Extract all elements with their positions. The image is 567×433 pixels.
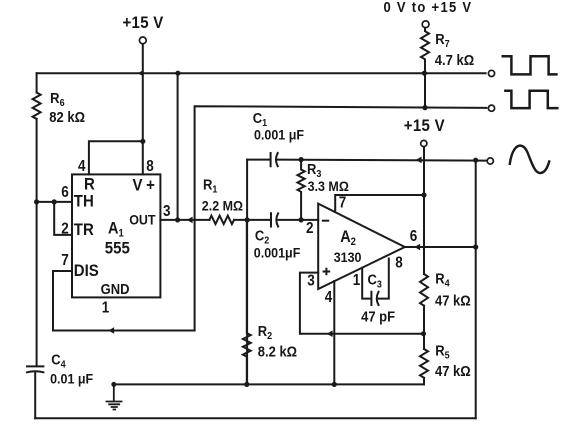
node dot ground rail / pin4 [332,382,337,387]
svg-text:47 pF: 47 pF [361,308,395,325]
wire right vertical x=475.7 (output to sine rail) [475,160,477,418]
capacitor C4 [27,366,43,372]
svg-text:OUT: OUT [129,212,155,228]
terminal +15V right [421,140,427,146]
svg-text:3130: 3130 [334,249,362,265]
node dot +15V / pin4 branch [140,139,145,144]
svg-text:4: 4 [325,289,333,306]
waveform square 2 [505,91,557,108]
svg-text:C2: C2 [255,227,269,247]
node dot +15V / pin7 [421,192,426,197]
wire x=194.6 vertical to 2nd output rail [195,106,487,330]
terminal square output 1 [488,70,494,76]
crossing mark pin1 over DIS wire [108,327,114,334]
svg-text:7: 7 [339,195,347,212]
wire +15V drop x=142.8 to 555 pin8 [142,44,144,175]
op-amp U A2 triangle [318,204,405,289]
wire pin4 branch y=141.3 [89,141,143,174]
node dot C1 / R3 top [299,157,304,162]
svg-text:3: 3 [163,203,171,220]
resistor R6 [33,93,41,119]
svg-text:1: 1 [102,300,110,317]
svg-text:GND: GND [101,280,130,297]
svg-text:TR: TR [74,221,94,239]
svg-text:R1: R1 [203,176,218,196]
op-amp pin7 stub to +15V [335,195,424,212]
svg-text:R6: R6 [50,89,64,109]
terminal sine output [487,158,493,164]
svg-text:DIS: DIS [74,262,99,280]
crossing mark x194.6 over OUT [187,217,193,224]
capacitor C3 [371,292,378,305]
wire TH pin6 y=202 [37,201,72,203]
op-amp pin8 stub [379,259,389,299]
svg-text:0.01 μF: 0.01 μF [50,371,93,387]
wire left rail x=36.6 (top corner to C4) [36,73,38,92]
svg-text:47 kΩ: 47 kΩ [435,362,471,379]
node dot rail2 / R7 [422,105,427,110]
svg-text:A1: A1 [108,220,124,240]
555 box A1 [72,174,160,297]
wire x=177.6 link OUT to top rail [177,73,179,220]
svg-text:4: 4 [78,158,86,175]
svg-text:R4: R4 [435,270,450,290]
svg-text:C4: C4 [51,351,66,371]
terminal +15V top-left [139,37,146,44]
svg-text:+15 V: +15 V [123,14,164,32]
op-amp minus sign [322,220,329,222]
wire C1 branch y=159.6 [247,159,270,161]
op-amp pin1 stub [362,268,371,299]
terminal square output 2 [488,105,494,111]
wire R1 to C2 node [234,219,271,221]
svg-text:R7: R7 [435,30,449,50]
waveform square 1 [503,56,557,74]
svg-text:V+: V+ [133,177,159,195]
svg-text:4.7 kΩ: 4.7 kΩ [435,51,474,68]
svg-text:8: 8 [395,255,403,272]
waveform sine [510,146,549,173]
op-amp pin3 route to divider [300,273,424,334]
resistor R4 [420,274,428,306]
wire x=247.1 vertical C1/C2/R2 [246,160,248,385]
wire left rail below R6 [36,119,38,366]
svg-text:47 kΩ: 47 kΩ [435,292,471,309]
node dot sine rail / right vertical [473,158,478,163]
svg-text:2: 2 [61,221,69,238]
wire R5 to ground rail [423,378,425,385]
svg-text:3.3 MΩ: 3.3 MΩ [308,178,350,194]
svg-text:6: 6 [410,228,418,245]
node dot TH / left rail [34,199,39,204]
wire TR pin2 branch [54,202,72,235]
svg-text:R: R [84,176,95,194]
svg-text:0.001 μF: 0.001 μF [254,127,304,143]
wire OUT pin3 y=220 [160,219,209,221]
svg-text:A2: A2 [340,228,356,248]
ground symbol [107,384,122,409]
crossing mark +15V over top rail [138,70,144,77]
svg-text:6: 6 [61,184,69,201]
wire R4 to R5 [423,306,425,349]
resistor R7 [421,28,429,108]
wire bottom rail [35,417,476,419]
svg-text:555: 555 [105,240,130,258]
node dot ground rail / R2 [244,382,249,387]
op-amp plus sign [323,268,331,276]
svg-text:C3: C3 [367,271,381,291]
svg-text:R2: R2 [258,322,272,342]
svg-text:+15 V: +15 V [404,117,445,135]
svg-text:8: 8 [146,158,154,175]
wire DIS pin7 route [53,271,195,331]
svg-text:7: 7 [61,252,69,269]
svg-text:82 kΩ: 82 kΩ [49,108,85,125]
wire ground rail y=384.4 [114,383,424,385]
node dot R1 / C2 branch [245,217,250,222]
crossing mark pin4 over pin3 wire [327,330,333,337]
svg-text:TH: TH [74,193,94,211]
resistor R3 [298,160,305,220]
resistor R2 [243,220,251,384]
node dot top rail / R7 [422,71,427,76]
wire C4 bottom to bottom rail [34,373,36,419]
node dot output / right vertical [473,244,478,249]
wire op-amp output y=247 [405,246,476,248]
node dot C2 / R3 bottom [299,217,304,222]
svg-text:2.2 MΩ: 2.2 MΩ [202,198,244,214]
resistor R5 [420,349,428,378]
svg-text:0.001μF: 0.001μF [254,245,301,261]
node dot TH / TR branch [52,199,57,204]
node dot top rail / x177.6 [175,71,180,76]
wire C2 to op-amp pin2 [278,219,318,221]
svg-text:8.2 kΩ: 8.2 kΩ [258,343,297,360]
wire top +15V rail y=73 [37,72,486,74]
capacitor C2 [271,213,278,226]
svg-text:2: 2 [306,220,314,237]
terminal 0V to +15V [422,21,429,28]
wire +15V right vertical x=424 [423,147,425,274]
node dot divider R4 R5 / pin3 [421,331,426,336]
svg-text:3: 3 [307,273,315,290]
resistor R1 [209,216,234,224]
svg-text:0 V to +15 V: 0 V to +15 V [384,0,473,15]
wire sine output rail y=160 [278,160,487,161]
crossing mark +15V over output [414,244,420,251]
svg-text:R5: R5 [435,342,450,362]
capacitor C1 [271,153,278,166]
crossing mark +15V over sine rail [416,157,422,164]
svg-text:1: 1 [353,272,361,289]
node dot OUT / x177.6 [175,217,180,222]
op-amp pin4 stub to ground [333,281,335,384]
node dot ground rail / pin1 [111,382,116,387]
